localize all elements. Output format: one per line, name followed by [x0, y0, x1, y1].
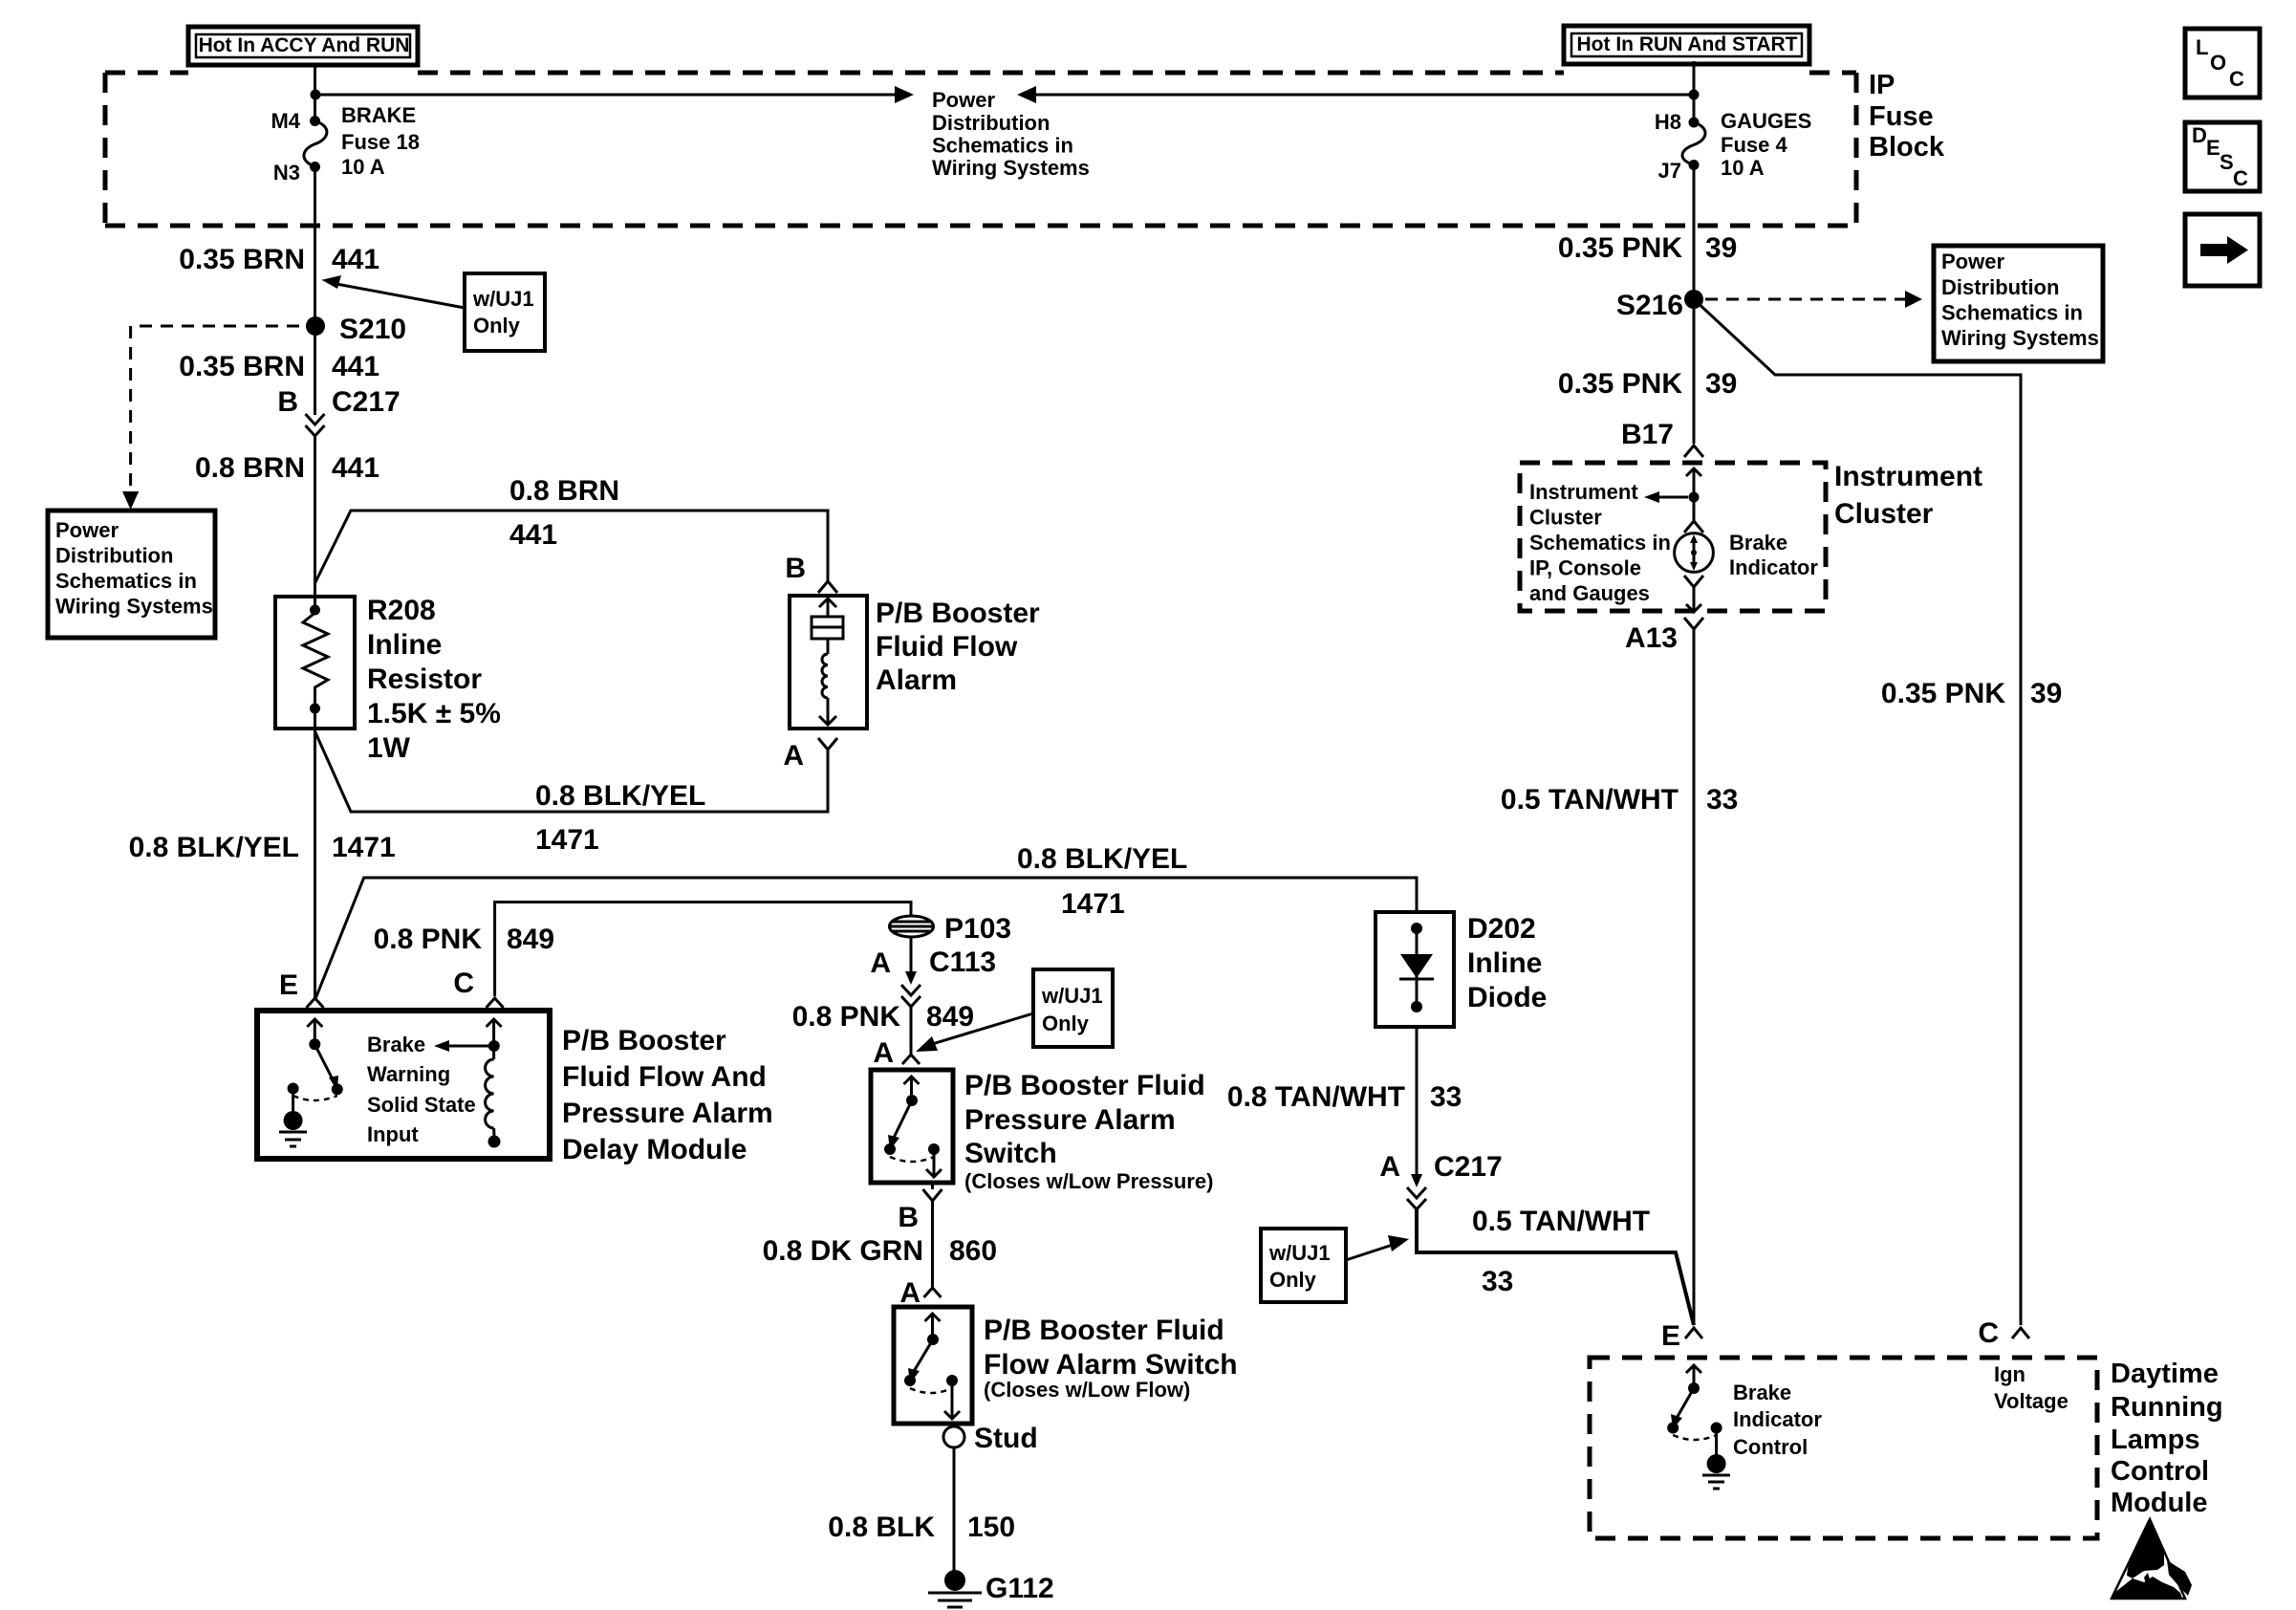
svg-text:Block: Block — [1869, 132, 1945, 163]
svg-text:Instrument: Instrument — [1529, 480, 1638, 504]
svg-text:0.8 BLK/YEL: 0.8 BLK/YEL — [129, 832, 299, 863]
svg-text:A: A — [783, 740, 804, 772]
svg-text:441: 441 — [332, 452, 379, 484]
svg-text:39: 39 — [1705, 368, 1737, 400]
svg-text:33: 33 — [1430, 1081, 1462, 1113]
svg-text:10 A: 10 A — [1721, 156, 1765, 180]
svg-text:A: A — [1379, 1151, 1400, 1183]
svg-text:Indicator: Indicator — [1733, 1407, 1822, 1431]
svg-text:Pressure Alarm: Pressure Alarm — [562, 1098, 773, 1129]
svg-text:Input: Input — [367, 1122, 419, 1146]
svg-text:w/UJ1: w/UJ1 — [1268, 1241, 1331, 1265]
svg-text:G112: G112 — [986, 1573, 1054, 1604]
svg-text:C: C — [453, 968, 474, 999]
svg-text:Wiring Systems: Wiring Systems — [1941, 326, 2099, 350]
svg-text:O: O — [2210, 51, 2226, 75]
svg-text:C: C — [2233, 166, 2248, 190]
svg-text:1471: 1471 — [535, 824, 599, 856]
svg-text:Schematics in: Schematics in — [932, 134, 1073, 158]
svg-text:Cluster: Cluster — [1834, 498, 1934, 530]
svg-text:Wiring Systems: Wiring Systems — [55, 595, 213, 619]
svg-text:849: 849 — [926, 1001, 974, 1033]
svg-text:B: B — [277, 386, 298, 418]
svg-text:A: A — [870, 947, 891, 979]
svg-text:IP, Console: IP, Console — [1529, 556, 1641, 580]
svg-text:1.5K ± 5%: 1.5K ± 5% — [367, 698, 501, 729]
svg-text:Control: Control — [1733, 1435, 1808, 1459]
svg-text:Hot In ACCY And RUN: Hot In ACCY And RUN — [199, 34, 410, 56]
svg-text:Schematics in: Schematics in — [1529, 531, 1671, 555]
svg-text:Module: Module — [2111, 1488, 2208, 1518]
svg-text:Schematics in: Schematics in — [55, 569, 197, 593]
svg-text:C: C — [1978, 1317, 1999, 1349]
svg-text:D: D — [2192, 123, 2207, 147]
svg-text:Power: Power — [932, 88, 995, 112]
svg-text:Power: Power — [55, 518, 119, 542]
svg-text:D202: D202 — [1467, 913, 1536, 945]
svg-text:Fuse: Fuse — [1869, 101, 1934, 132]
svg-text:Power: Power — [1941, 250, 2004, 273]
svg-text:Pressure Alarm: Pressure Alarm — [964, 1104, 1176, 1136]
svg-text:0.8 BRN: 0.8 BRN — [195, 452, 305, 484]
svg-text:0.8 BLK/YEL: 0.8 BLK/YEL — [535, 780, 705, 812]
svg-text:P/B Booster Fluid: P/B Booster Fluid — [984, 1315, 1224, 1346]
svg-text:0.35 PNK: 0.35 PNK — [1881, 678, 2005, 709]
svg-text:1471: 1471 — [332, 832, 396, 863]
svg-text:E: E — [2206, 136, 2220, 160]
svg-text:Delay Module: Delay Module — [562, 1134, 747, 1165]
svg-text:N3: N3 — [273, 161, 300, 185]
svg-text:M4: M4 — [271, 109, 300, 133]
svg-text:150: 150 — [967, 1512, 1015, 1543]
svg-text:GAUGES: GAUGES — [1721, 109, 1811, 133]
svg-text:w/UJ1: w/UJ1 — [1041, 984, 1103, 1008]
svg-text:860: 860 — [949, 1235, 997, 1267]
svg-text:Distribution: Distribution — [932, 111, 1050, 135]
svg-text:H8: H8 — [1655, 110, 1681, 134]
svg-text:Fluid Flow And: Fluid Flow And — [562, 1061, 767, 1093]
svg-text:0.5 TAN/WHT: 0.5 TAN/WHT — [1472, 1206, 1650, 1237]
svg-text:0.8 DK GRN: 0.8 DK GRN — [763, 1235, 923, 1267]
svg-text:Ign: Ign — [1994, 1362, 2025, 1386]
svg-text:1W: 1W — [367, 732, 411, 764]
svg-text:and Gauges: and Gauges — [1529, 581, 1650, 605]
svg-text:Inline: Inline — [367, 629, 442, 661]
svg-text:B: B — [785, 553, 806, 584]
svg-text:B: B — [898, 1202, 919, 1233]
svg-text:Distribution: Distribution — [1941, 275, 2059, 299]
svg-text:39: 39 — [2030, 678, 2062, 709]
svg-text:R208: R208 — [367, 595, 436, 626]
svg-text:0.35 BRN: 0.35 BRN — [179, 244, 305, 275]
svg-text:E: E — [279, 969, 298, 1001]
svg-text:10 A: 10 A — [341, 155, 385, 179]
svg-text:Control: Control — [2111, 1456, 2209, 1487]
svg-text:w/UJ1: w/UJ1 — [472, 287, 534, 311]
svg-text:1471: 1471 — [1061, 888, 1125, 920]
svg-text:0.35 BRN: 0.35 BRN — [179, 351, 305, 382]
svg-text:Running: Running — [2111, 1392, 2223, 1423]
svg-text:0.8 PNK: 0.8 PNK — [792, 1001, 901, 1033]
svg-text:0.8 BLK/YEL: 0.8 BLK/YEL — [1017, 843, 1187, 875]
svg-text:849: 849 — [507, 924, 554, 955]
svg-text:441: 441 — [332, 351, 379, 382]
svg-text:Voltage: Voltage — [1994, 1389, 2069, 1413]
svg-text:Schematics in: Schematics in — [1941, 301, 2083, 325]
svg-text:Fuse 18: Fuse 18 — [341, 130, 420, 154]
svg-text:IP: IP — [1869, 70, 1895, 100]
svg-text:33: 33 — [1706, 784, 1738, 816]
svg-text:Hot In RUN And START: Hot In RUN And START — [1577, 33, 1798, 55]
svg-text:Fuse 4: Fuse 4 — [1721, 133, 1787, 157]
svg-text:Only: Only — [1269, 1268, 1317, 1292]
svg-text:Resistor: Resistor — [367, 664, 482, 695]
svg-text:L: L — [2196, 35, 2208, 59]
svg-text:BRAKE: BRAKE — [341, 103, 416, 127]
svg-text:Inline: Inline — [1467, 947, 1542, 979]
svg-text:Wiring Systems: Wiring Systems — [932, 156, 1090, 180]
svg-text:0.35 PNK: 0.35 PNK — [1558, 368, 1682, 400]
svg-text:Alarm: Alarm — [876, 664, 957, 696]
svg-text:C217: C217 — [1434, 1151, 1503, 1183]
svg-text:Brake: Brake — [1733, 1381, 1791, 1404]
svg-text:Only: Only — [473, 314, 521, 337]
svg-text:P/B Booster: P/B Booster — [562, 1025, 726, 1056]
svg-text:39: 39 — [1705, 232, 1737, 264]
svg-text:Distribution: Distribution — [55, 544, 173, 568]
svg-text:A: A — [873, 1037, 894, 1069]
svg-text:E: E — [1661, 1320, 1680, 1352]
svg-text:Brake: Brake — [367, 1033, 425, 1056]
svg-text:P/B Booster Fluid: P/B Booster Fluid — [964, 1070, 1205, 1101]
svg-text:Flow Alarm Switch: Flow Alarm Switch — [984, 1349, 1238, 1381]
svg-text:A: A — [899, 1277, 921, 1309]
svg-text:(Closes w/Low Flow): (Closes w/Low Flow) — [984, 1378, 1190, 1402]
svg-text:Solid State: Solid State — [367, 1093, 476, 1117]
svg-text:P103: P103 — [944, 913, 1011, 945]
svg-text:0.8 TAN/WHT: 0.8 TAN/WHT — [1227, 1081, 1405, 1113]
svg-text:0.8 PNK: 0.8 PNK — [374, 924, 483, 955]
svg-text:Warning: Warning — [367, 1062, 450, 1086]
svg-text:Indicator: Indicator — [1729, 555, 1818, 579]
svg-text:0.8 BLK: 0.8 BLK — [828, 1512, 935, 1543]
svg-text:P/B Booster: P/B Booster — [876, 598, 1040, 629]
svg-text:441: 441 — [332, 244, 379, 275]
svg-text:J7: J7 — [1658, 159, 1681, 183]
svg-text:0.5 TAN/WHT: 0.5 TAN/WHT — [1501, 784, 1679, 816]
svg-text:Switch: Switch — [964, 1138, 1057, 1169]
svg-text:Fluid Flow: Fluid Flow — [876, 631, 1018, 663]
svg-text:Lamps: Lamps — [2111, 1425, 2199, 1455]
svg-text:0.35 PNK: 0.35 PNK — [1558, 232, 1682, 264]
svg-text:Only: Only — [1042, 1012, 1090, 1035]
svg-text:33: 33 — [1482, 1266, 1513, 1297]
svg-text:S210: S210 — [339, 314, 406, 345]
svg-text:Diode: Diode — [1467, 982, 1547, 1013]
svg-text:B17: B17 — [1621, 419, 1674, 450]
svg-text:C113: C113 — [929, 946, 996, 978]
svg-text:S216: S216 — [1616, 290, 1683, 321]
svg-text:Brake: Brake — [1729, 531, 1787, 555]
svg-text:441: 441 — [509, 519, 557, 551]
svg-text:S: S — [2220, 150, 2234, 174]
svg-text:Stud: Stud — [974, 1423, 1038, 1454]
svg-text:0.8 BRN: 0.8 BRN — [509, 475, 619, 507]
svg-text:(Closes w/Low Pressure): (Closes w/Low Pressure) — [964, 1169, 1213, 1193]
svg-text:C: C — [2229, 67, 2244, 91]
svg-text:Instrument: Instrument — [1834, 461, 1982, 492]
svg-text:Cluster: Cluster — [1529, 506, 1602, 530]
svg-text:Daytime: Daytime — [2111, 1359, 2219, 1389]
svg-text:A13: A13 — [1625, 622, 1678, 654]
svg-text:C217: C217 — [332, 386, 401, 418]
